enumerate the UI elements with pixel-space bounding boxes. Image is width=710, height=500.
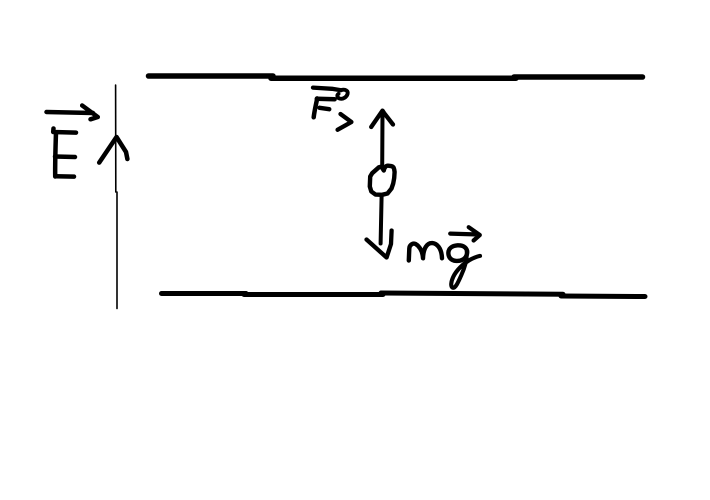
label m xyxy=(409,243,442,260)
vector arrow over F xyxy=(313,88,348,99)
vector arrow over g xyxy=(450,227,480,240)
charge blob Q xyxy=(370,166,395,195)
weight arrow mg (down shaft) xyxy=(381,196,382,244)
field line (thin vertical) xyxy=(116,85,117,309)
down arrowhead (V) xyxy=(367,231,392,258)
small greater-than mark after F xyxy=(338,114,352,130)
field line arrowhead (caret) xyxy=(99,137,127,163)
force arrow F (up arrow shaft) xyxy=(380,113,384,168)
label F xyxy=(314,98,335,117)
top plate xyxy=(149,76,643,78)
label g xyxy=(448,245,480,288)
vector arrow over E xyxy=(47,106,98,120)
up arrowhead xyxy=(371,111,393,127)
label E xyxy=(53,129,76,177)
bottom plate xyxy=(162,293,646,297)
